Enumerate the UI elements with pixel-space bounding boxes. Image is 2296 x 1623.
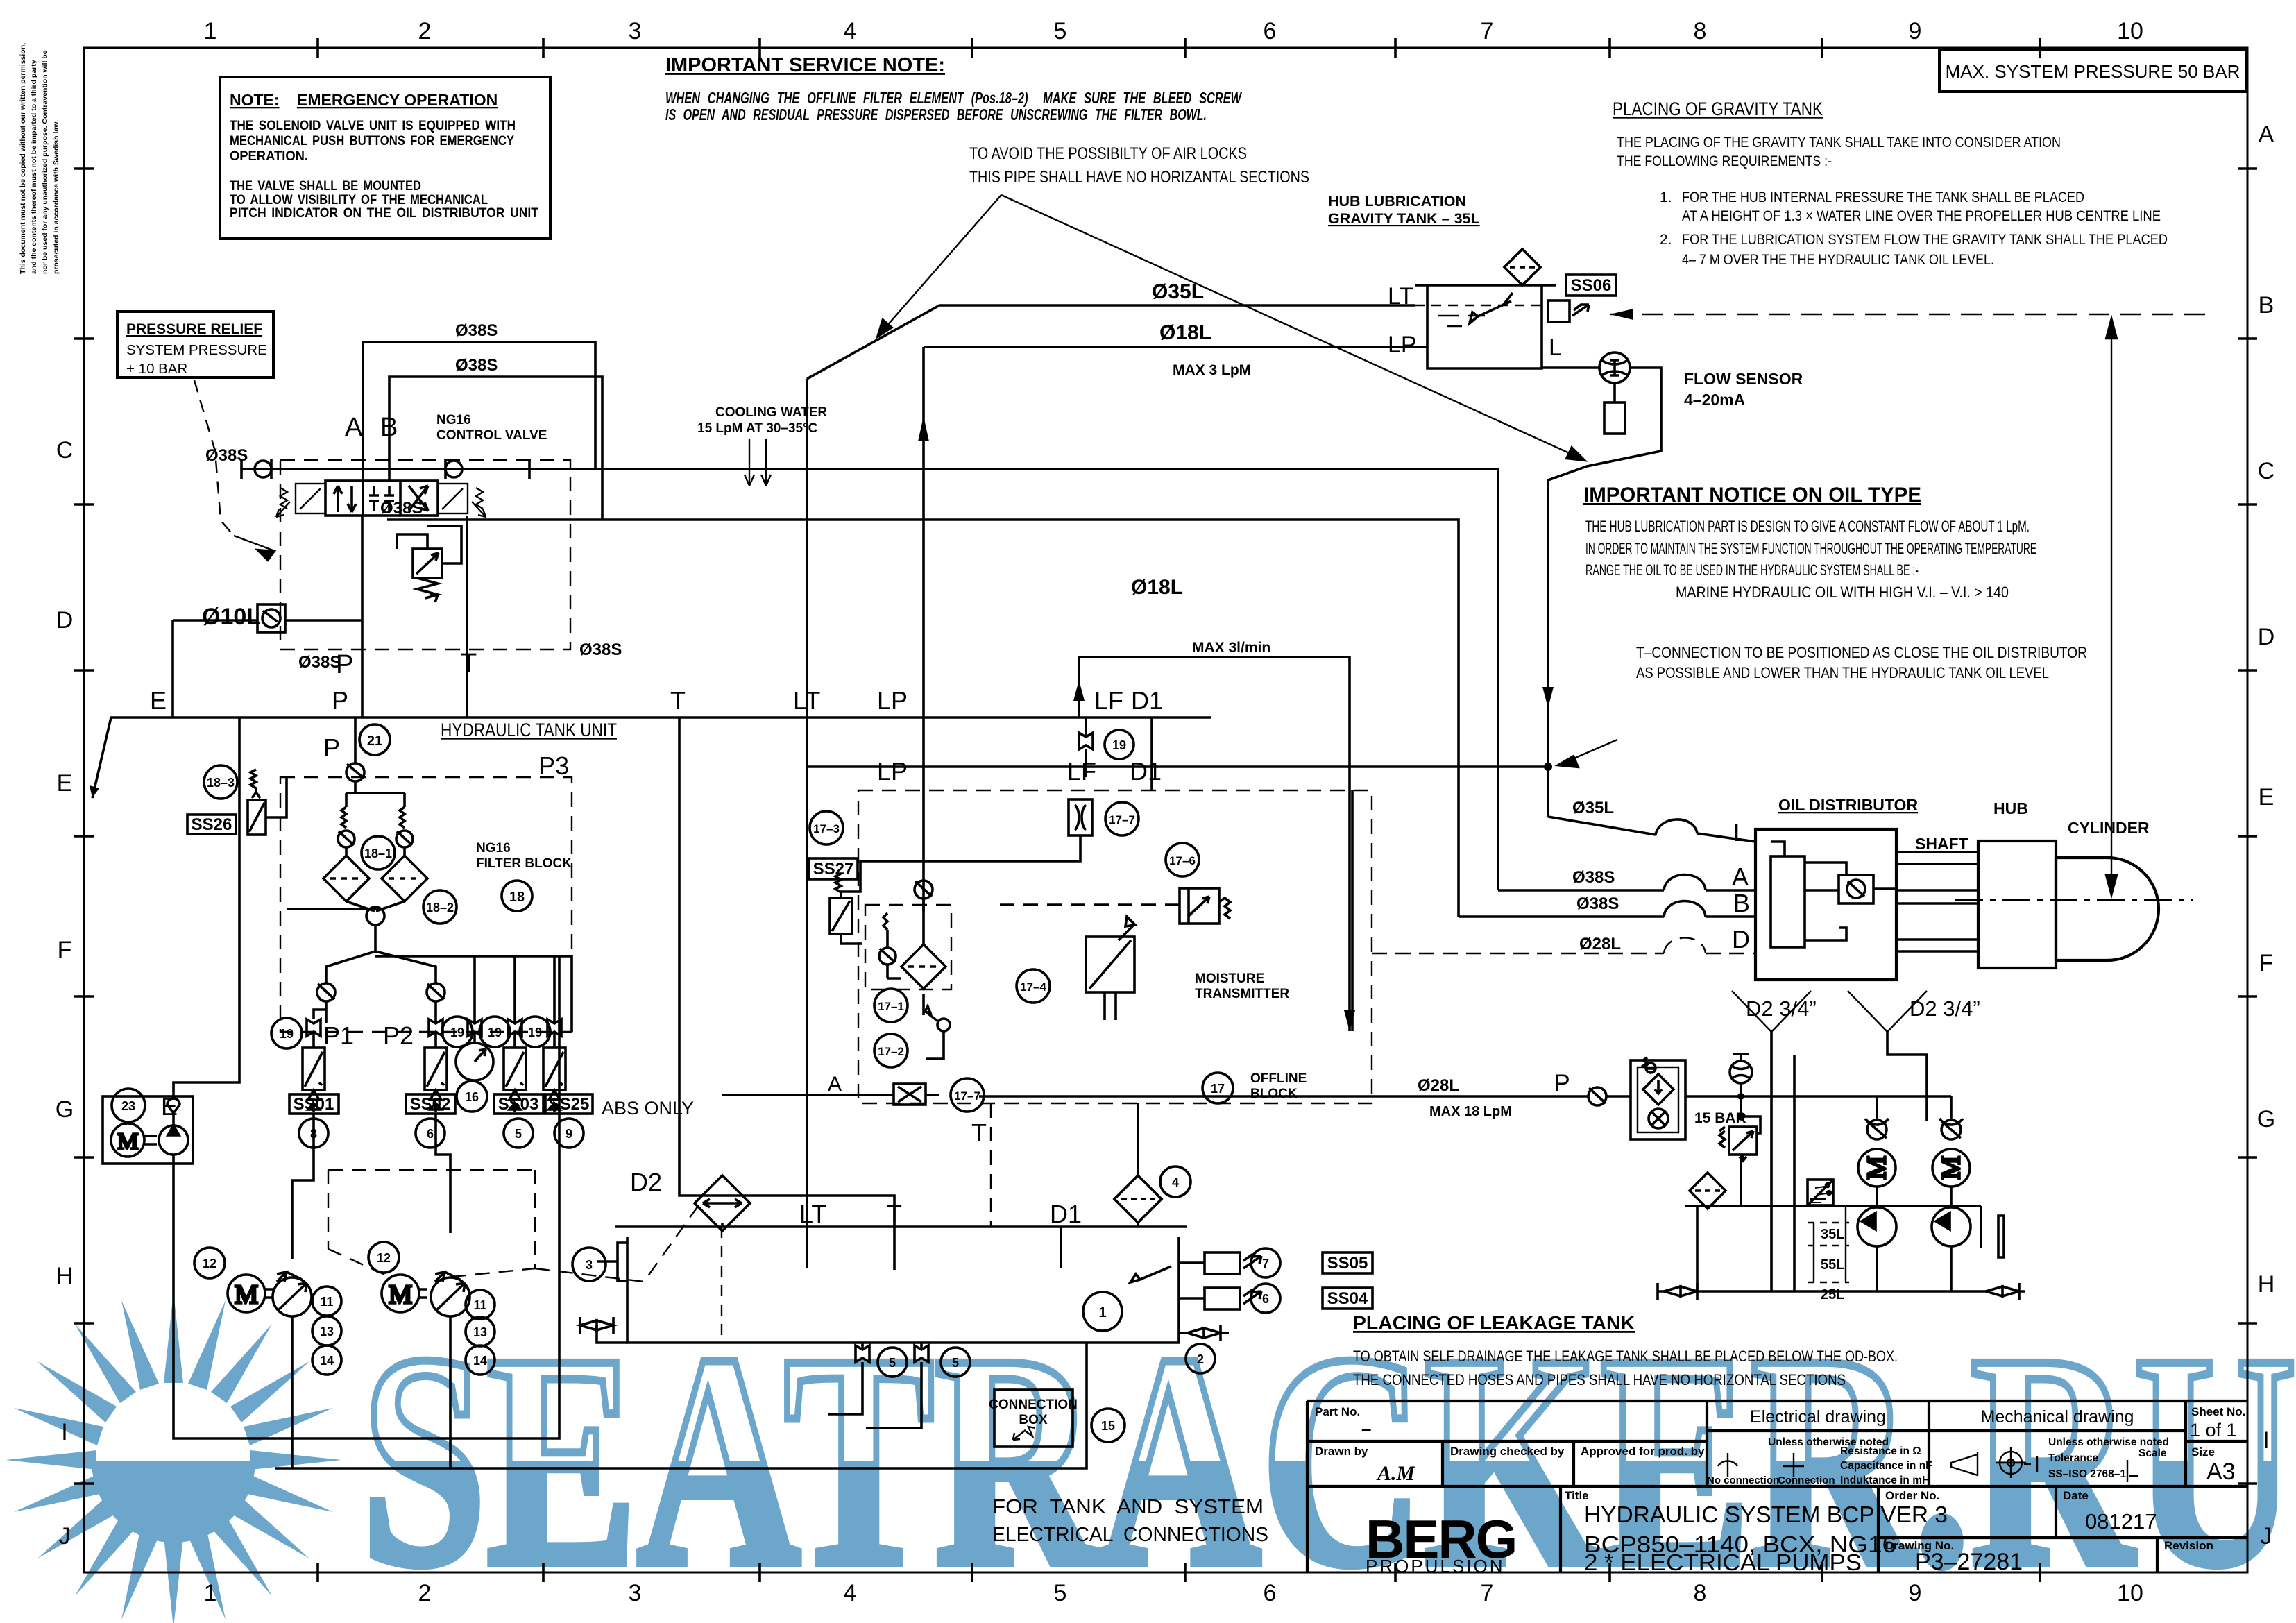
svg-text:D2 3/4”: D2 3/4” [1746,996,1817,1021]
solenoid sensor SS02 [425,1048,447,1112]
svg-text:T: T [670,686,686,715]
SS27 label box [809,858,858,879]
svg-text:COOLING WATER: COOLING WATER [715,405,827,420]
svg-text:This document must not be copi: This document must not be copied without… [19,43,27,274]
leak level stub [1814,1206,1846,1282]
moisture transmitter [1086,917,1135,1020]
pos 7 circle [1251,1248,1280,1277]
svg-text:D1: D1 [1131,686,1163,715]
pos 21 circle [359,724,390,755]
svg-text:MECHANICAL PUSH BUTTONS FOR EM: MECHANICAL PUSH BUTTONS FOR EMERGENCY [230,134,514,148]
svg-text:18–2: 18–2 [426,901,454,915]
distributor internal wires [1771,842,1896,940]
svg-text:19: 19 [450,1026,464,1039]
tank right drain valve [1179,1325,1229,1341]
hub lubrication gravity tank label [1328,193,1480,227]
relief valve inside block [397,526,461,602]
svg-text:IS OPEN AND RESIDUAL PRESSURE: IS OPEN AND RESIDUAL PRESSURE DISPERSED … [665,105,1207,124]
D1 breather filter [1114,1103,1162,1227]
svg-text:A: A [345,413,363,442]
air breather leak [1730,1054,1752,1096]
cylinder body [2056,858,2159,960]
offline block label [1250,1071,1307,1101]
electrical no-connection symbol [1718,1453,2127,1482]
svg-text:SS06: SS06 [1571,276,1612,295]
leak motor m1 [1858,1149,1896,1187]
pos 17-4 circle [1017,969,1050,1003]
svg-text:THE HUB LUBRICATION PART IS DE: THE HUB LUBRICATION PART IS DESIGN TO GI… [1585,518,2030,535]
svg-text:EMERGENCY OPERATION: EMERGENCY OPERATION [297,91,498,109]
leak unit top line [1685,1095,1951,1098]
svg-text:Ø38S: Ø38S [455,321,498,340]
svg-text:19: 19 [280,1027,294,1041]
svg-text:NOTE:: NOTE: [230,91,280,109]
tank unit interface line [92,717,1211,798]
SS03 label box [494,1094,543,1114]
check valve on A-line [241,459,271,479]
svg-text:IN ORDER TO MAINTAIN THE SYSTE: IN ORDER TO MAINTAIN THE SYSTEM FUNCTION… [1585,540,2036,557]
air lock note [969,144,1309,187]
pos 17-7 circle bottom [951,1078,984,1112]
svg-text:LF: LF [1067,757,1096,785]
svg-text:SS02: SS02 [410,1095,451,1114]
connection box [989,1390,1078,1447]
svg-text:D2: D2 [630,1168,662,1196]
svg-text:FOR THE HUB INTERNAL PRESSURE: FOR THE HUB INTERNAL PRESSURE THE TANK S… [1682,189,2084,205]
junction dot leak [1737,1093,1744,1100]
d1 wire into box [1150,717,1153,790]
SS04 label box [1323,1288,1372,1309]
drain x-valve 1 [856,1343,869,1376]
svg-text:MARINE HYDRAULIC OIL WITH HIGH: MARINE HYDRAULIC OIL WITH HIGH V.I. – V.… [1676,584,2009,601]
air-lock pointer lines [877,195,1585,461]
drain cock [924,994,950,1059]
leak pump 1 [1857,1187,1896,1291]
svg-text:D: D [56,607,74,634]
shutoff x-valves row [307,1010,561,1048]
leak motor m2 [1932,1149,1970,1187]
svg-text:PRESSURE RELIEF: PRESSURE RELIEF [126,321,262,337]
lp riser arrow [918,416,929,441]
svg-text:NG16: NG16 [436,413,471,427]
directional valve 4/3 [325,481,438,516]
svg-text:OPERATION.: OPERATION. [230,149,308,164]
pos 18-1 circle [362,836,395,869]
svg-text:12: 12 [203,1257,216,1271]
size labels o35l o38s o38s o28l [1572,799,1621,953]
svg-text:D: D [1732,925,1750,953]
svg-text:THE VALVE SHALL BE MOUNTED: THE VALVE SHALL BE MOUNTED [230,179,421,194]
pos 12 circle p2 [368,1242,399,1273]
pos 11 13 14 circles p1 [312,1286,341,1375]
cooling water label [697,405,827,436]
SS26 sensor [248,770,287,835]
svg-text:2.: 2. [1660,232,1672,248]
port labels L A B D [1732,818,1750,953]
lt dashed level [1415,305,1549,306]
svg-text:THE FOLLOWING REQUIREMENTS :-: THE FOLLOWING REQUIREMENTS :- [1617,153,1832,169]
watermark text solid lower [361,1291,2296,1623]
leak check valve m2 [1939,1096,1963,1139]
gravity tank breather [1504,249,1540,285]
svg-text:19: 19 [528,1026,542,1039]
svg-text:HYDRAULIC TANK UNIT: HYDRAULIC TANK UNIT [441,720,617,740]
svg-text:Ø35L: Ø35L [1572,799,1614,817]
svg-text:LP: LP [877,686,908,715]
solenoid sensor SS03 [504,1048,526,1112]
svg-text:LT: LT [1388,283,1413,309]
centerline [1955,899,2193,901]
svg-text:P: P [1554,1070,1570,1096]
svg-text:P: P [332,686,348,715]
svg-text:Ø10L: Ø10L [202,604,261,630]
svg-text:F: F [2259,950,2274,976]
svg-text:MAX 18 LpM: MAX 18 LpM [1429,1104,1512,1119]
tank fill valve [580,1317,627,1343]
svg-text:C: C [2258,458,2275,484]
check valve on P riser [346,717,405,807]
SS06 sensor [1548,300,1589,322]
pos circles 8 6 5 9 [299,1119,584,1148]
svg-text:LP: LP [877,757,908,785]
svg-text:THE SOLENOID VALVE UNIT IS EQU: THE SOLENOID VALVE UNIT IS EQUIPPED WITH [230,119,516,133]
svg-text:IMPORTANT SERVICE NOTE:: IMPORTANT SERVICE NOTE: [665,54,945,76]
svg-text:Ø18L: Ø18L [1131,576,1183,599]
svg-text:AS POSSIBLE AND LOWER THAN TH: AS POSSIBLE AND LOWER THAN THE HYDRAULIC… [1636,664,2049,681]
pos 3 circle and port [572,1248,606,1281]
svg-text:SS01: SS01 [294,1095,334,1114]
SS01 label box [289,1094,339,1114]
solenoid sensor SS01 [303,1048,325,1112]
svg-text:8: 8 [1694,18,1707,44]
svg-text:SS25: SS25 [549,1095,590,1114]
pump 2 group [382,1272,470,1316]
height dimension arrow [2106,318,2117,896]
B hose wire [1459,901,1755,917]
svg-text:LF: LF [1094,686,1123,715]
margin fine print [19,43,60,274]
svg-text:SS05: SS05 [1327,1254,1368,1273]
oil level dashes [1438,316,1485,326]
leak filter block [1631,1057,1685,1139]
svg-text:1: 1 [204,18,217,44]
svg-text:Ø38S: Ø38S [1572,868,1615,887]
svg-text:H: H [56,1263,74,1289]
hydraulic tank body [627,1237,1179,1343]
LT LP labels gravity [1388,283,1417,358]
drain stubs to connection [828,1376,921,1428]
svg-text:4–20mA: 4–20mA [1684,391,1745,409]
T riser to tank [679,717,894,1270]
svg-text:13: 13 [320,1325,334,1339]
check valve on B-line [445,459,529,479]
gravity tank body [1427,285,1542,368]
important notice on oil type [1583,484,2036,601]
LT riser wire [806,379,808,1237]
svg-text:M: M [235,1280,258,1309]
P riser wire [361,516,364,717]
pos 16 circle [457,1081,487,1112]
svg-text:Ø18L: Ø18L [1159,321,1211,344]
svg-text:T–CONNECTION TO BE POSITIONED: T–CONNECTION TO BE POSITIONED AS CLOSE T… [1636,644,2087,661]
leak pump 2 [1932,1187,1971,1291]
offline check valve [915,881,933,912]
svg-text:BLOCK: BLOCK [1250,1087,1298,1101]
pos 5 circle 2 [941,1348,970,1377]
pos 18 circle [502,881,532,911]
svg-text:2: 2 [418,18,432,44]
gravity tank top line [1415,284,1556,287]
svg-text:M: M [117,1129,138,1155]
svg-text:P1: P1 [323,1021,354,1050]
svg-text:PITCH INDICATOR ON THE OIL DIS: PITCH INDICATOR ON THE OIL DISTRIBUTOR U… [230,206,538,221]
svg-text:19: 19 [488,1026,502,1039]
distributor spool [1771,856,1805,947]
svg-text:MAX. SYSTEM PRESSURE 50 BAR: MAX. SYSTEM PRESSURE 50 BAR [1946,61,2240,82]
distributor internal check [1839,875,1873,903]
flow sensor [1599,352,1630,434]
offline spring check [879,913,901,978]
svg-text:AT A HEIGHT OF 1.3 × WATER LIN: AT A HEIGHT OF 1.3 × WATER LINE OVER THE… [1682,208,2161,224]
svg-text:55L: 55L [1821,1257,1844,1273]
watermark sun rays [6,1292,341,1623]
lf orifice [1069,799,1092,835]
pos 23 circle [112,1089,145,1122]
svg-text:HUB LUBRICATION: HUB LUBRICATION [1328,193,1466,210]
svg-text:WHEN CHANGING THE OFFLINE FILT: WHEN CHANGING THE OFFLINE FILTER ELEMENT… [665,89,1242,107]
pos 15 circle [1091,1409,1125,1442]
note box emergency operation [220,77,550,239]
svg-text:T: T [971,1119,987,1147]
o35l pipe [807,305,1415,379]
emergency suction loop [173,957,559,1438]
t-connection pointer [1557,740,1617,767]
svg-text:E: E [150,686,167,715]
svg-text:6: 6 [1264,18,1277,44]
tank internal verticals [807,1227,1061,1268]
t-connection note [1636,644,2087,681]
svg-text:Ø38S: Ø38S [298,653,341,672]
SS06 label box [1566,275,1616,296]
arrow on d1 drop [1344,1010,1355,1031]
svg-text:G: G [56,1096,74,1123]
long B work line [387,520,1459,917]
leak manifold drop left [1697,1155,1741,1291]
screwdriver in tank [1470,293,1513,323]
d1 inner drop [1351,790,1354,1031]
svg-text:D1: D1 [1130,757,1162,785]
NG16 filter block label [476,841,572,871]
svg-text:21: 21 [367,733,382,749]
svg-text:and the contents thereof must: and the contents thereof must not be imp… [30,60,38,274]
SS25 label box [545,1094,593,1114]
svg-text:D: D [2258,624,2275,650]
SS05 label box [1323,1252,1372,1273]
svg-text:prosecuted in accordance with: prosecuted in accordance with Swedish la… [52,120,60,274]
filter outlet junction [346,901,405,951]
svg-text:14: 14 [320,1354,334,1368]
svg-text:OFFLINE: OFFLINE [1250,1071,1307,1086]
spring check P2 [427,983,445,1023]
svg-text:MAX 3 LpM: MAX 3 LpM [1173,362,1251,378]
svg-text:F: F [58,937,72,963]
offline block dashed box [858,790,1372,1103]
svg-text:FLOW SENSOR: FLOW SENSOR [1684,370,1803,388]
svg-text:NG16: NG16 [476,841,511,856]
gauge [456,1043,493,1080]
pos 11 13 14 circles p2 [466,1290,495,1375]
leak right port bracket [1998,1216,2004,1257]
svg-text:15 LpM AT 30–35°C: 15 LpM AT 30–35°C [697,421,818,436]
svg-text:17: 17 [1211,1082,1225,1096]
oil distributor body [1755,829,1896,980]
pos 18-3 circle [204,765,237,799]
tank left port bracket [597,1243,627,1281]
svg-text:Ø28L: Ø28L [1579,935,1621,953]
svg-text:SS03: SS03 [498,1095,539,1114]
offline filter diamond [901,944,946,989]
screwdriver mark [1130,1266,1171,1282]
svg-text:L: L [1733,818,1747,847]
svg-text:G: G [2257,1106,2275,1132]
svg-text:17–1: 17–1 [878,1000,904,1013]
svg-text:A: A [2259,121,2274,148]
T dashed drop [990,1103,992,1227]
svg-text:5: 5 [1054,18,1067,44]
tank level dashes [721,1227,722,1343]
svg-text:Ø38S: Ø38S [380,499,423,518]
header to gauges [375,956,572,1032]
svg-text:+ 10 BAR: + 10 BAR [126,361,187,377]
flow sensor label [1684,370,1803,409]
d2 funnel left [1732,991,1811,1032]
schematic line work [90,195,2210,1468]
svg-text:THIS PIPE SHALL HAVE NO HORIZA: THIS PIPE SHALL HAVE NO HORIZANTAL SECTI… [969,168,1309,187]
placing of gravity tank [1613,99,2168,268]
interface arrow [90,785,99,798]
svg-text:4– 7 M OVER THE THE HYDRAULIC: 4– 7 M OVER THE THE HYDRAULIC TANK OIL L… [1682,252,1994,268]
solenoid sensor SS25 [543,1048,566,1112]
svg-text:17–4: 17–4 [1020,980,1046,994]
E riser [173,717,239,1096]
arrow on L drop [1542,687,1554,708]
svg-text:HUB: HUB [1993,799,2028,817]
emergency hand pump unit [103,1096,193,1164]
pos 19 circle lf [1105,730,1134,759]
pos 2 circle [1186,1344,1215,1373]
pos 6 circle [1251,1284,1280,1313]
d2 funnel right [1848,991,1927,1032]
LT T D1 labels at tank [799,1200,1082,1228]
lf shutoff valve [1079,717,1093,777]
svg-text:3: 3 [629,18,642,44]
drain x-valve 2 [915,1343,928,1376]
svg-text:D1: D1 [1050,1200,1082,1228]
svg-text:M: M [1862,1156,1891,1180]
hub body [1978,841,2056,968]
watermark text outline upper [361,1291,2296,1623]
D hose hump [1664,938,1706,954]
leak tank level labels [1821,1227,1844,1302]
o18l pipe [924,347,1427,944]
svg-text:7: 7 [1481,18,1494,44]
svg-text:CONTROL VALVE: CONTROL VALVE [436,428,547,443]
level switch SS05 [1179,1252,1261,1274]
svg-text:P2: P2 [383,1021,414,1050]
svg-text:17–7: 17–7 [954,1089,980,1103]
svg-text:18–3: 18–3 [207,776,235,790]
svg-text:18: 18 [509,890,525,905]
svg-text:OIL DISTRIBUTOR: OIL DISTRIBUTOR [1778,796,1918,814]
svg-text:A: A [1732,863,1749,891]
svg-text:23: 23 [121,1099,135,1113]
svg-text:12: 12 [377,1251,391,1265]
svg-text:L: L [1549,334,1562,361]
pos 17-3 circle [810,811,843,844]
pos 12 circle [194,1248,225,1278]
svg-text:Ø28L: Ø28L [1418,1076,1459,1095]
svg-text:LP: LP [1388,332,1417,358]
control valve dashed enclosure [280,460,570,649]
watermark [6,1291,2296,1623]
svg-text:SHAFT: SHAFT [1915,835,1968,853]
svg-text:SYSTEM PRESSURE: SYSTEM PRESSURE [126,342,267,358]
svg-text:B: B [2259,292,2274,318]
SS27 sensor [830,874,862,944]
leak check valve m1 [1865,1096,1889,1139]
pos 17-2 circle [874,1034,908,1067]
level switch SS04 [1179,1288,1261,1309]
svg-text:6: 6 [427,1127,434,1141]
svg-text:9: 9 [1909,18,1922,44]
check valve o10l [173,604,362,632]
pos 19 circles row [271,1017,550,1048]
leak bottom manifold [1697,1206,1986,1291]
D2 dashed boundary [328,1170,700,1282]
pressure relief note box [117,312,273,377]
valve A riser wire [363,342,595,481]
svg-text:T: T [461,649,477,678]
svg-text:P: P [323,733,340,762]
offline filter inner dashed [865,905,951,989]
svg-text:TRANSMITTER: TRANSMITTER [1195,987,1289,1001]
svg-text:16: 16 [465,1090,479,1104]
svg-text:19: 19 [1112,738,1126,752]
interface labels [150,686,1163,715]
T riser wire [466,516,468,717]
leak manifold [1685,1205,1981,1207]
placing of leakage tank [1353,1312,1898,1388]
arrow on lf riser [1073,680,1085,701]
second o18l pipe [1079,657,1350,1031]
leak check valve [1588,1087,1631,1105]
svg-text:CYLINDER: CYLINDER [2068,819,2150,837]
tank top line [615,1225,1187,1228]
SS26 tap line [266,776,384,909]
svg-text:LT: LT [799,1200,826,1228]
SS26 label box [187,815,236,834]
long A work line [241,469,1498,890]
svg-text:17–7: 17–7 [1109,813,1135,826]
berg logo [1366,1509,1516,1577]
filter diamond 18-2 [382,856,427,901]
svg-text:MOISTURE: MOISTURE [1195,971,1264,986]
svg-text:4: 4 [1172,1175,1179,1189]
svg-text:15 BAR: 15 BAR [1694,1110,1746,1126]
shaft lines [1896,852,1978,951]
pos 17-1 circle [874,989,908,1022]
d2 pipes down [1771,1032,1927,1291]
